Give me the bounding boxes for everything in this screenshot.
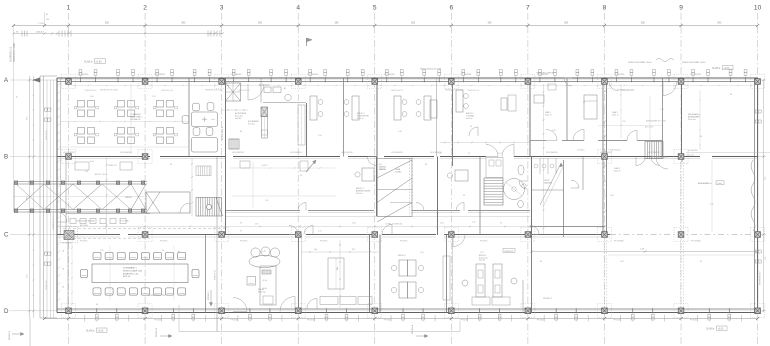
texts below row C [80,241,487,243]
main ramp (zigzag) [377,159,412,223]
svg-text:S=14.2: S=14.2 [262,165,268,167]
svg-text:ALBASTRU 7-44: ALBASTRU 7-44 [123,272,139,275]
svg-text:LICH 200/250: LICH 200/250 [391,152,403,154]
profile marker bottom-left corner [9,330,24,340]
svg-text:PF 30/30: PF 30/30 [160,241,167,243]
exterior wall row D (south) [57,309,758,313]
row B dim texts 435-530 [438,153,502,155]
svg-text:PF 30/30: PF 30/30 [537,320,544,322]
door arc room 663-682 [663,82,677,96]
corridor wall [226,211,605,227]
svg-text:86: 86 [162,250,164,252]
profile marker A [411,324,428,337]
svg-text:S=12 m: S=12 m [614,171,621,173]
ramp text block [379,164,386,171]
low cabinets south wall 320-375 [320,297,372,305]
west staircase upper flight [196,166,211,176]
door arcs upper band [248,78,618,100]
svg-text:90: 90 [63,268,65,270]
svg-text:LICH 200/250: LICH 200/250 [120,152,132,154]
svg-text:H=2.80: H=2.80 [235,118,241,120]
svg-text:1.48: 1.48 [660,109,664,111]
interior dimension chain x340 lower [337,240,341,308]
svg-text:380: 380 [564,22,569,25]
svg-text:B: B [4,154,8,161]
svg-text:380: 380 [717,22,722,25]
svg-text:86.5 1273: 86.5 1273 [645,127,653,129]
svg-text:1.05 1.48: 1.05 1.48 [686,155,694,157]
partition walls lower band C-D [68,235,532,332]
svg-text:CT. 200/250: CT. 200/250 [231,74,243,76]
svg-text:S=11 m: S=11 m [612,115,619,117]
svg-text:PE 200/250: PE 200/250 [62,243,71,245]
svg-text:P2: P2 [300,175,302,177]
suite wall y140 [440,141,663,144]
grid 8 expansion joint double wall [603,78,607,237]
svg-text:BIROU 4: BIROU 4 [398,255,406,257]
entrance vestibule [146,192,190,213]
lounge text [258,288,266,294]
svg-text:LICH 200/250: LICH 200/250 [600,152,612,154]
svg-text:LICH 200/250: LICH 200/250 [232,152,244,154]
svg-text:4: 4 [296,5,300,12]
suite corridor dim texts [577,126,662,152]
svg-text:COMANDA 1: COMANDA 1 [130,113,141,116]
svg-text:PF 30/30: PF 30/30 [154,320,161,322]
svg-text:SCHIMBARE 1: SCHIMBARE 1 [123,267,137,270]
svg-text:PERETELE 30: PERETELE 30 [85,90,97,92]
level note SLAB bottom-right [706,326,727,331]
svg-text:PERETELE IN VLAK: PERETELE IN VLAK [100,89,118,92]
svg-text:86: 86 [240,131,242,133]
svg-text:10: 10 [754,5,762,12]
svg-text:FERESTRE: FERESTRE [46,130,48,140]
svg-text:86: 86 [425,164,427,166]
room 302-369 dim line [302,249,380,253]
meeting chairs [182,103,214,136]
roof overhang outline [179,305,460,332]
room text 540 [545,111,552,117]
wing area texts [52,164,132,245]
columns row B [62,150,689,164]
svg-text:CT. 200/250: CT. 200/250 [613,74,625,76]
svg-text:CAM 3: CAM 3 [614,167,620,170]
windfang wall below wing [66,213,150,215]
lounge door arcs south wall [233,297,295,312]
rotated text wall 222 [221,126,224,140]
svg-text:PF 30/30: PF 30/30 [240,241,247,243]
room text 610 [612,111,619,117]
svg-text:90: 90 [470,126,472,128]
svg-text:9: 9 [679,5,683,12]
svg-text:380: 380 [181,22,186,25]
row letters A-D [4,77,9,315]
office desks C-D room 380-437 [391,255,423,298]
svg-text:ADMINISTRATIE: ADMINISTRATIE [356,190,371,193]
svg-text:380: 380 [641,22,646,25]
svg-text:CT. 200/250: CT. 200/250 [460,74,472,76]
bathroom partitions B-C [532,158,564,190]
svg-text:AMENAJARE IN CURS: AMENAJARE IN CURS [646,120,667,123]
svg-text:BUCATARIE: BUCATARIE [248,120,259,123]
window dimension ticks under top wall [72,85,755,87]
exterior wall row A (north) [57,78,758,82]
svg-text:2.40: 2.40 [610,195,614,197]
svg-text:90: 90 [178,251,180,253]
sill texts each bay [85,90,633,92]
svg-text:ASTEPTARE 30: ASTEPTARE 30 [221,126,224,140]
meeting tables room 190-218 [192,112,218,152]
corridor extra texts [240,222,476,233]
svg-text:INTERCOLANE 1564: INTERCOLANE 1564 [123,269,143,272]
profile marker B [156,327,172,337]
west exterior wall [57,78,61,313]
svg-text:S=18 m: S=18 m [466,118,473,120]
desks left rooms band B-C [70,162,132,186]
svg-text:PERETE 30: PERETE 30 [215,270,217,280]
svg-text:40 40: 40 40 [263,280,268,282]
row reference lines to letters [10,80,766,311]
window sill texts band A [100,89,635,92]
svg-text:160: 160 [85,171,88,173]
svg-text:17.45: 17.45 [38,23,44,25]
strip 205-217 rotated text [215,270,217,280]
svg-text:1: 1 [67,5,71,12]
top dimension line [12,22,759,27]
svg-text:1.20: 1.20 [710,204,714,206]
open office mid dimension line [60,121,188,123]
west wall insulation hatch [58,83,61,301]
west facade outer wall lines [40,76,57,318]
svg-text:H=2.80: H=2.80 [479,260,485,262]
entrance steps near kitchen [229,139,239,149]
svg-text:873: 873 [352,249,355,251]
marks band B-C rooms 230-330 [240,161,308,171]
svg-text:90: 90 [463,195,465,197]
svg-text:PERETELE IN VLAK: PERETELE IN VLAK [205,89,223,92]
small rotated text left wall [17,96,19,98]
kitchen counter along wall 306 [298,105,305,145]
room text B-C 614 [614,167,621,173]
rotated note top-left margin [10,43,17,62]
svg-text:SCARA BL-1/3: SCARA BL-1/3 [10,46,13,62]
cabinets along south wall [472,297,510,305]
svg-text:LICH 200/250: LICH 200/250 [341,152,353,154]
svg-text:COTA CULOAR 200: COTA CULOAR 200 [385,223,402,226]
svg-text:CT. 200/250: CT. 200/250 [537,74,549,76]
conference room left dim texts [63,240,73,306]
svg-text:90: 90 [63,250,65,252]
svg-text:CAM 1: CAM 1 [545,111,551,114]
svg-text:120: 120 [46,19,49,21]
svg-text:1.48: 1.48 [398,131,402,133]
svg-text:LICH 200/250 30 VLAK: LICH 200/250 30 VLAK [76,220,95,223]
texts above row B wall [63,152,660,154]
svg-text:380: 380 [334,22,339,25]
svg-text:INTERIOR la 1:100: INTERIOR la 1:100 [148,295,166,297]
svg-text:AMENAJARE la: AMENAJARE la [698,182,713,185]
svg-text:6: 6 [449,5,453,12]
office desks rooms 4-5 [310,96,431,120]
big room dim chain x700 [699,90,701,150]
double door arcs on row B near 500 [486,145,514,157]
terrace right wall rotated text [760,270,762,285]
svg-text:CT. 200/250: CT. 200/250 [307,74,319,76]
svg-text:+2.80: +2.80 [96,60,103,63]
desk band B-C near 456 [447,170,468,181]
svg-text:380: 380 [488,22,493,25]
svg-text:PF 30/30: PF 30/30 [460,320,467,322]
wavy revision line right edge [751,160,755,231]
svg-text:S=14 m: S=14 m [356,193,363,195]
svg-text:2.40: 2.40 [620,261,624,263]
svg-text:90: 90 [170,164,172,166]
svg-text:BOX 44: BOX 44 [123,276,131,278]
svg-text:5: 5 [373,5,377,12]
svg-text:PROFIL 1: PROFIL 1 [543,298,553,300]
svg-text:PROFIL B: PROFIL B [156,327,158,337]
svg-text:PERETELE 30: PERETELE 30 [161,90,173,92]
svg-text:SALA 4: SALA 4 [258,288,264,291]
conference room text [123,267,143,279]
svg-text:8: 8 [603,5,607,12]
interior dimension chain x106 [106,157,108,235]
interior wall row C [57,235,758,238]
svg-text:PF 30/30: PF 30/30 [307,320,314,322]
svg-text:PF 30/30A: PF 30/30A [614,240,624,243]
svg-text:SLAB la: SLAB la [706,328,715,331]
svg-text:PF 30/30: PF 30/30 [231,320,238,322]
level note SLAB +2.80 top-left [84,59,106,64]
window axis markers along top facade [79,70,747,83]
partition x480 band B-C [479,157,481,235]
room text band A-B second [235,112,247,120]
open office desk clusters band A-B [74,101,98,117]
svg-text:INTERIOR: INTERIOR [505,251,514,253]
svg-text:7: 7 [526,5,530,12]
room text band A-B office 345 [357,113,370,120]
svg-text:2.04: 2.04 [498,153,502,155]
bathroom block fixtures 515-530 [518,165,527,208]
svg-text:S=11 m: S=11 m [545,115,552,117]
svg-text:PERETELE IN VLAK: PERETELE IN VLAK [617,89,635,92]
svg-text:SCARII: SCARII [395,171,402,174]
svg-text:1.20: 1.20 [70,184,74,186]
left margin rotated texts [46,130,48,290]
svg-text:90: 90 [63,286,65,288]
room 452 dimension chain [543,84,545,234]
door arc row B near stairs [368,157,377,166]
svg-text:56: 56 [17,96,19,98]
row A arrow marker left [33,78,40,82]
svg-text:PERGOLA LEMN 10x10: PERGOLA LEMN 10x10 [682,61,706,64]
north arrow [307,38,313,46]
svg-text:90: 90 [700,261,702,263]
svg-text:403: 403 [314,249,317,251]
svg-text:D: D [4,308,9,315]
svg-text:SCARA ACCES EXT: SCARA ACCES EXT [52,212,55,230]
svg-text:C: C [4,232,9,239]
left wall window marks [45,108,51,265]
beam labels CT 200/250 along row A [78,74,702,76]
svg-text:2.40: 2.40 [420,252,424,254]
partition walls upper band A-B [189,78,682,235]
svg-text:S=18 mp: S=18 mp [258,292,266,294]
secondary left dimension line [12,31,223,37]
svg-text:LICH 200/250: LICH 200/250 [63,152,75,154]
svg-text:BIROU 7 S=16: BIROU 7 S=16 [95,174,107,176]
svg-text:LICH 200/250: LICH 200/250 [430,152,442,154]
svg-text:LICH 200/250: LICH 200/250 [290,152,302,154]
svg-text:AMENAJARE: AMENAJARE [688,116,700,119]
svg-text:1.20: 1.20 [622,121,626,123]
svg-text:PF 30/30: PF 30/30 [480,241,487,243]
door arc room 452 top [453,235,465,247]
tiny dims top-left corner [45,12,50,26]
svg-text:SALA MARE: SALA MARE [688,113,699,116]
svg-text:CT. 200/250: CT. 200/250 [78,74,90,76]
svg-text:PERETELE 30: PERETELE 30 [391,90,403,92]
svg-text:LICH 200/250: LICH 200/250 [648,152,660,154]
svg-text:3: 3 [220,5,224,12]
svg-text:2.04: 2.04 [440,223,444,225]
terrace dimension line [530,249,759,253]
svg-text:SLAB la: SLAB la [84,61,93,64]
svg-text:S=55 mp: S=55 mp [688,119,696,121]
svg-text:LICH 200/250: LICH 200/250 [546,152,558,154]
right wall window marks [755,110,761,263]
svg-text:PROFIL A: PROFIL A [411,324,414,334]
cabinet row band B-C left [70,219,126,224]
columns row A [62,75,765,89]
svg-text:45: 45 [46,14,48,16]
svg-text:RAMPA: RAMPA [125,196,132,199]
svg-text:CONTAB: CONTAB [466,115,474,118]
svg-text:SLAB la: SLAB la [86,330,95,333]
svg-text:1.20: 1.20 [152,96,156,98]
svg-text:1.48: 1.48 [262,251,266,253]
svg-text:S=9 mp: S=9 mp [248,124,255,126]
rooms 530-604 furniture [534,84,597,119]
ramp posts [14,181,144,212]
svg-text:PERGOLA LEMN 10x10: PERGOLA LEMN 10x10 [628,61,652,64]
east exterior wall [755,78,758,313]
small stair grille 645-663 [645,142,663,159]
room text B-C 356 [356,188,371,195]
door arc bottom-left room 302 [307,299,317,309]
bathroom big shower circle [504,179,525,200]
svg-text:PARDOSEALA 30 PLIN: PARDOSEALA 30 PLIN [420,68,442,71]
svg-text:270: 270 [255,224,258,226]
scattered dimension smudges [90,94,732,306]
svg-text:PF 30/30: PF 30/30 [690,320,697,322]
svg-text:S=21 m: S=21 m [357,118,364,120]
boiler room appliances [222,85,306,111]
svg-text:1.48: 1.48 [352,223,356,225]
svg-text:485: 485 [337,267,339,270]
office desks C-D room 452-523 [443,249,517,301]
svg-text:CAM 2: CAM 2 [612,111,618,114]
svg-text:PROFIL C: PROFIL C [208,290,210,300]
left boundary line x13.5 [13,26,15,182]
terrace dotted columns verticals [604,237,683,313]
svg-text:PF 30/30A: PF 30/30A [691,240,701,243]
svg-text:380: 380 [105,22,110,25]
door arcs rooms B-C [57,157,668,223]
svg-text:FERESTRE: FERESTRE [46,280,48,290]
room text B-C 545 [544,180,553,185]
svg-text:SLAB la: SLAB la [712,67,721,70]
svg-text:2: 2 [143,5,147,12]
svg-text:1:100: 1:100 [717,183,722,185]
grid axis numbers 1-10 [67,5,762,12]
room text kitchen [248,120,259,126]
door arcs corridor [289,203,539,235]
svg-text:PF 30/30: PF 30/30 [320,241,327,243]
svg-text:ASTEPTARE: ASTEPTARE [235,112,247,115]
svg-text:380: 380 [411,22,416,25]
entry stair hatch block [226,83,241,101]
svg-text:90: 90 [240,231,242,233]
svg-text:PERETELE 30: PERETELE 30 [467,90,479,92]
svg-text:2.04: 2.04 [90,161,94,163]
left vertical dimension chains [27,76,35,318]
svg-text:1.20: 1.20 [265,200,269,202]
stair dim chain x192 [191,158,193,216]
svg-text:SUPRAF 44: SUPRAF 44 [130,118,140,121]
svg-text:CT. 200/250: CT. 200/250 [690,74,702,76]
room text band A-B office 465 [466,113,474,120]
svg-text:1.20: 1.20 [480,252,484,254]
svg-text:PF 30/30: PF 30/30 [384,320,391,322]
svg-text:86: 86 [700,136,702,138]
svg-text:1.20: 1.20 [318,231,322,233]
svg-text:2.35: 2.35 [472,222,476,224]
svg-text:380: 380 [258,22,263,25]
svg-text:CASA: CASA [395,168,401,171]
secondary stair mid-south [484,178,503,205]
lounge oval table room C-D [247,247,280,305]
level note SLAB 0.00 top-right [712,65,733,70]
svg-text:ALB 3000: ALB 3000 [80,224,88,227]
room text band A-B open office [130,113,142,121]
svg-text:2.40: 2.40 [90,96,94,98]
profile arrow near stairs [300,160,316,177]
extra faint chains [60,84,754,255]
svg-text:PE 200/250: PE 200/250 [688,150,697,152]
svg-text:2.40: 2.40 [552,130,556,132]
svg-text:RAMPA: RAMPA [379,168,386,171]
svg-text:CT. 200/250: CT. 200/250 [154,74,166,76]
ramp diagonal braces [16,184,146,210]
svg-text:+0.00: +0.00 [718,328,725,330]
shaft above secondary stair [486,158,503,178]
svg-text:90: 90 [452,231,454,233]
dim chain x621 [620,84,622,138]
room text 688 big room [688,113,700,121]
svg-text:86: 86 [96,304,98,306]
svg-text:90: 90 [583,102,585,104]
corridor dimension chain [57,223,530,228]
site boundary line bottom-left [29,318,31,346]
svg-text:B2: B2 [284,88,286,90]
svg-text:90: 90 [468,153,470,155]
svg-text:+0.00: +0.00 [98,330,105,332]
interior wall row B [57,157,758,159]
terrace column labels [614,240,701,243]
svg-text:PERETELE 30: PERETELE 30 [238,90,250,92]
right margin dimension chain [762,79,767,312]
